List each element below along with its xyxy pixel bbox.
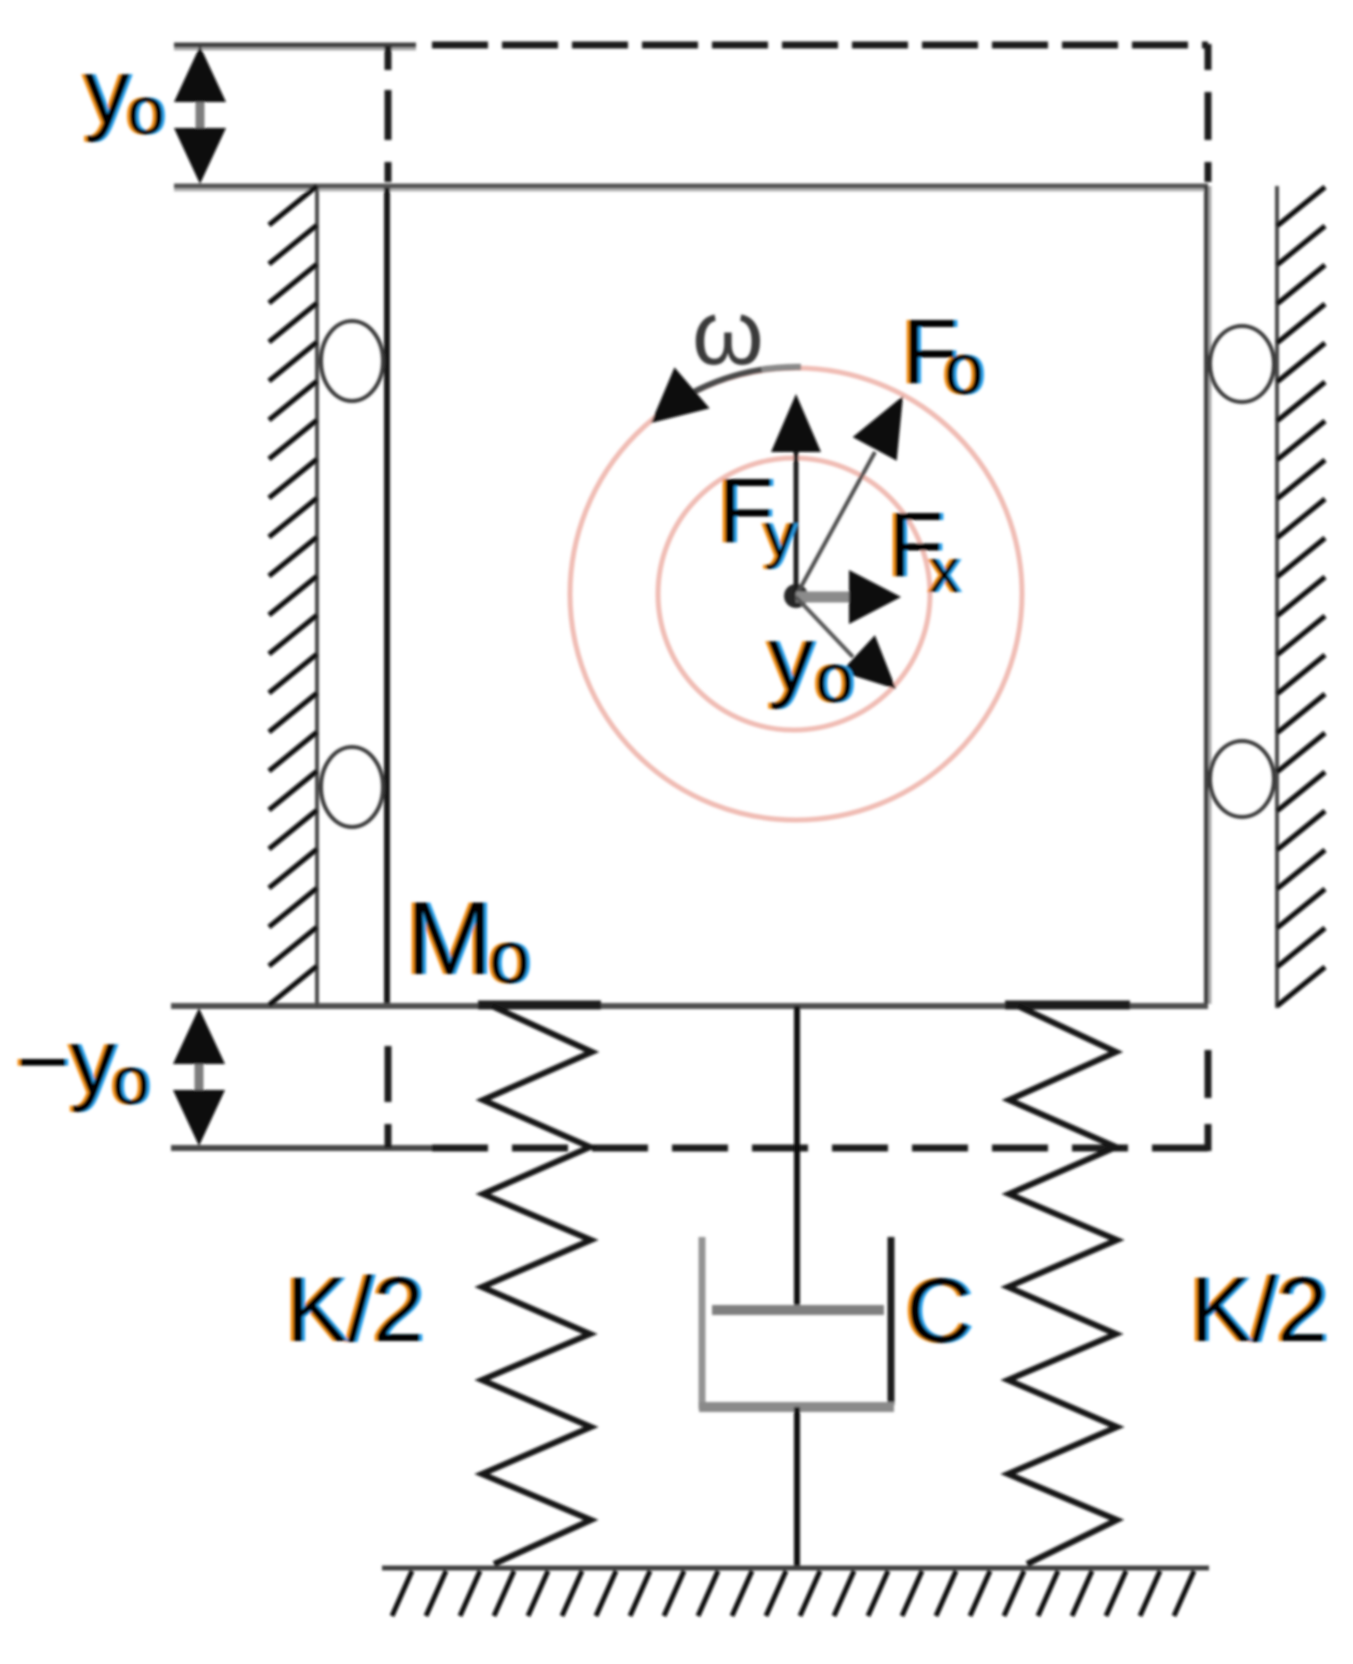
svg-text:y: y — [84, 41, 130, 143]
arrow omega (rotation direction arc) — [694, 367, 801, 392]
svg-text:o: o — [489, 916, 530, 999]
node rotor center — [784, 584, 808, 608]
svg-text:−y: −y — [16, 1011, 116, 1113]
roller right lower — [1210, 741, 1274, 817]
wire lower reference line (solid part) — [171, 1145, 432, 1151]
damper cup — [699, 1237, 706, 1409]
hatching left wall — [269, 186, 317, 1005]
damper C rod upper — [794, 1006, 800, 1312]
svg-text:C: C — [906, 1260, 972, 1362]
svg-text:y: y — [768, 608, 814, 710]
arrow y0 displacement (top-left double arrow) — [196, 70, 205, 160]
damper C rod lower — [794, 1407, 800, 1568]
wall left (fixed guide) — [315, 186, 319, 1008]
damper piston — [712, 1305, 884, 1315]
rotor orbit inner circle (pink) — [658, 458, 930, 730]
roller left upper — [321, 321, 383, 401]
svg-text:ω: ω — [692, 282, 764, 384]
svg-text:o: o — [127, 73, 165, 149]
wire spring attach segment left (darker) — [478, 1001, 601, 1010]
svg-text:K/2: K/2 — [286, 1259, 424, 1361]
arrow Fx (horizontal force) — [796, 592, 850, 603]
svg-text:K/2: K/2 — [1190, 1259, 1328, 1361]
wire left dashed vertical (top) — [385, 46, 392, 182]
wire top reference line (solid, displaced position +y0) — [174, 43, 416, 48]
wall right (fixed guide) — [1275, 186, 1279, 1008]
arrow -y0 displacement (double arrow) — [195, 1032, 204, 1122]
wire top dashed outline (horizontal) — [432, 42, 1208, 49]
svg-text:M: M — [406, 881, 493, 997]
mass box M0 outline — [174, 184, 1208, 189]
spring K/2 left — [482, 1006, 592, 1564]
roller right upper — [1210, 326, 1274, 402]
svg-text:o: o — [112, 1043, 150, 1119]
wire right dashed vertical (top) — [1205, 44, 1212, 182]
rotor orbit outer circle (pink) — [570, 368, 1022, 820]
ground line — [382, 1566, 1209, 1571]
hatching right wall — [1277, 187, 1325, 1006]
arrow y0 (eccentric displacement, down-right) — [796, 597, 853, 657]
wire right dashed vertical (bottom) — [1205, 1050, 1212, 1151]
svg-text:o: o — [815, 639, 854, 717]
svg-text:y: y — [764, 501, 795, 570]
svg-text:x: x — [929, 537, 960, 606]
spring K/2 right — [1008, 1006, 1117, 1564]
hatching ground — [392, 1571, 1194, 1616]
arrow Fy (vertical force) — [794, 452, 799, 596]
wire lower dashed line — [432, 1145, 1208, 1152]
arrow F0 (resultant force, diagonal) — [796, 452, 875, 596]
svg-text:o: o — [944, 330, 984, 410]
wire spring attach segment right (darker) — [1005, 1001, 1130, 1010]
wire left dashed vertical (bottom) — [385, 1046, 392, 1148]
roller left lower — [321, 747, 383, 827]
